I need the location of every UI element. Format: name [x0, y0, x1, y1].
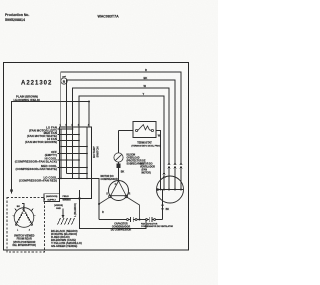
arrowhead supply line — [10, 190, 13, 195]
label run capacitor — [111, 223, 132, 232]
detail box rotary switch rear view (dashed) — [7, 198, 45, 253]
fan motor terminal dots — [160, 189, 183, 191]
wire: fan leads from buses — [168, 167, 170, 190]
svg-text:SWITCH: SWITCH — [95, 146, 99, 157]
node S junction — [98, 203, 100, 205]
dial stem — [22, 204, 24, 211]
wire color legend — [51, 229, 82, 248]
svg-text:FIELD: FIELD — [63, 196, 70, 198]
svg-text:KLIXON: KLIXON — [127, 155, 136, 157]
paper noise — [0, 0, 218, 285]
switch contact rows — [58, 129, 92, 178]
label fan capacitor — [141, 222, 174, 228]
fan capacitor C2 — [146, 217, 156, 222]
svg-text:5995208814: 5995208814 — [5, 18, 25, 22]
svg-text:DE COMPRESSOR: DE COMPRESSOR — [111, 230, 132, 232]
switch dial circle — [14, 208, 34, 228]
field wiring note — [14, 95, 40, 102]
svg-text:(COMPRESSOR+FAN RED): (COMPRESSOR+FAN RED) — [19, 178, 57, 182]
wire: supply line loop left side — [12, 102, 90, 192]
svg-text:MOTOR): MOTOR) — [142, 173, 152, 175]
svg-text:BK: BK — [166, 208, 170, 211]
overload protector — [114, 153, 123, 162]
dial pointer V with comb ticks — [16, 210, 32, 224]
compressor terminal S — [109, 195, 112, 198]
power supply cord box — [44, 194, 60, 202]
svg-text:BK: BK — [121, 171, 125, 174]
svg-text:WAC083T7A: WAC083T7A — [98, 15, 120, 19]
wire: bus 2 — [67, 80, 176, 163]
node: switch bottom supply exit — [78, 197, 80, 199]
wire: overload to terminal — [118, 162, 120, 163]
fan motor — [157, 176, 184, 203]
outer border frame — [4, 63, 189, 251]
wire: bus 4 — [79, 96, 164, 190]
thermostat terminal left — [136, 129, 138, 131]
switch terminal pin labels — [60, 124, 90, 127]
svg-text:R: R — [145, 68, 147, 72]
svg-text:BK: BK — [144, 76, 148, 80]
svg-text:OVERLOAD: OVERLOAD — [127, 157, 140, 160]
wire: compressor S lead — [99, 197, 109, 204]
node R junction — [139, 219, 141, 221]
overload terminal block — [117, 163, 121, 168]
label fan motor — [140, 164, 155, 175]
node: supply to switch terminal 4 — [88, 101, 90, 103]
switch contact dots — [60, 128, 88, 179]
header production number — [5, 13, 29, 22]
thermostat T1 box — [133, 122, 156, 138]
svg-text:SUPPLY: SUPPLY — [47, 199, 56, 201]
connector chevrons bus4 — [162, 171, 165, 174]
svg-text:A221302: A221302 — [21, 81, 52, 87]
compressor terminal R — [125, 195, 128, 198]
wire: fan bottom lead — [162, 190, 164, 220]
svg-text:CAPACITOR: CAPACITOR — [114, 223, 128, 226]
svg-text:R: R — [102, 211, 104, 214]
circled symbol — [61, 76, 67, 84]
ground hatching — [58, 218, 75, 225]
wire: thermostat to compressor — [119, 130, 134, 132]
svg-text:DEL INTERRUPTOR): DEL INTERRUPTOR) — [12, 244, 36, 247]
svg-text:(COMPRESSOR+FAN WHITE): (COMPRESSOR+FAN WHITE) — [16, 167, 58, 171]
svg-text:(FAN: (FAN — [142, 169, 148, 172]
compressor motor — [109, 181, 129, 201]
dial rim ticks — [12, 209, 35, 217]
wire: thermostat to fan common — [156, 131, 161, 190]
dial squiggle — [23, 207, 24, 211]
fan motor terminal bar — [157, 189, 184, 191]
svg-text:MOTOR DO: MOTOR DO — [140, 164, 153, 166]
svg-text:BK: BK — [17, 206, 21, 208]
thermostat terminal right — [151, 129, 153, 131]
switch internal columns — [61, 127, 87, 179]
wire: switch terminal 4 pigtail — [88, 102, 90, 128]
svg-text:Y: Y — [143, 92, 145, 96]
svg-text:(TERMOSTATO DE EL FRIO): (TERMOSTATO DE EL FRIO) — [131, 145, 161, 148]
wire: compressor R lead — [127, 197, 139, 219]
svg-text:(MAROON): (MAROON) — [46, 195, 58, 198]
dial leg terminals — [15, 224, 17, 226]
connector chevrons bus1 — [179, 162, 182, 165]
rotary switch block — [60, 127, 92, 199]
svg-text:GND: GND — [56, 208, 61, 210]
svg-text:GN-GREEN (VERDE): GN-GREEN (VERDE) — [51, 244, 77, 248]
wire: terminal to compressor — [118, 168, 120, 180]
svg-text:Production No.: Production No. — [5, 13, 29, 17]
fan terminal left ring — [157, 189, 159, 191]
connector chevrons fan bottom — [161, 204, 164, 207]
svg-text:FAN CAPACITOR: FAN CAPACITOR — [141, 222, 158, 225]
wire: bus 1 (switch term L to fan) — [61, 72, 181, 163]
connector chevrons bus3 — [167, 162, 170, 165]
ground arrow — [62, 209, 64, 216]
thermostat contact symbol — [138, 125, 152, 131]
switch position labels — [15, 126, 57, 183]
wire: switch to compressor branch — [92, 178, 100, 219]
svg-text:(VERDE): (VERDE) — [54, 205, 63, 207]
label overload protector — [127, 155, 146, 166]
wire: neutral from switch bottom — [80, 190, 147, 229]
svg-text:WIRING: WIRING — [63, 199, 71, 201]
svg-text:(PROTECTOR DE: (PROTECTOR DE — [127, 161, 146, 163]
svg-text:TERMOSTAT: TERMOSTAT — [137, 142, 152, 145]
svg-text:(FAN MOTOR BROWN): (FAN MOTOR BROWN) — [25, 140, 57, 144]
wire: compressor feed down — [118, 131, 120, 153]
svg-text:L (BLANCO): L (BLANCO) — [74, 203, 77, 217]
svg-text:(COMPRESSOR+FAN BLACK): (COMPRESSOR+FAN BLACK) — [15, 159, 57, 163]
svg-text:CONDENSATOR DE VENTILATOR: CONDENSATOR DE VENTILATOR — [141, 225, 174, 228]
svg-text:CONDENSADOR: CONDENSADOR — [112, 226, 131, 229]
wire: bus 3 — [73, 88, 170, 163]
svg-text:COMPRESSOR: COMPRESSOR — [101, 178, 119, 181]
svg-text:VENTILADOR: VENTILADOR — [140, 166, 155, 169]
bottom run wire with capacitors — [99, 219, 163, 221]
connector chevrons bus2 — [173, 162, 176, 165]
compressor terminal C — [118, 180, 120, 182]
run capacitor C1 — [127, 217, 138, 222]
compressor winding triangle — [111, 181, 127, 196]
